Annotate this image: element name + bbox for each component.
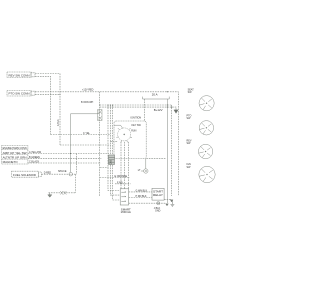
connector P4 face (199, 166, 215, 182)
switch rotor (114, 125, 132, 142)
svg-text:REV SW CONN: REV SW CONN (9, 74, 30, 77)
connector P3 face (198, 144, 212, 158)
svg-text:+12V RED: +12V RED (82, 89, 94, 92)
svg-text:B+12V: B+12V (154, 108, 163, 112)
switch terminal wire L (127, 142, 129, 189)
module wire 1 (129, 191, 152, 193)
module M1 (120, 189, 128, 205)
harness drop wire 2 (110, 105, 120, 195)
switch terminal wire B (124, 142, 126, 189)
connector box J2 (PTO switch) (7, 91, 35, 97)
wire rotor left lower (110, 140, 118, 142)
diode D1 (60, 191, 66, 195)
wire legend row2 (28, 153, 109, 155)
svg-text:D RED: D RED (44, 172, 52, 175)
legend table (2, 146, 28, 165)
accessory bus 2 (100, 107, 176, 110)
fuse F1 20A (98, 110, 102, 121)
wire to ground (49, 192, 76, 194)
svg-text:A YELLOW: A YELLOW (29, 151, 42, 154)
fuel solenoid box (12, 171, 42, 177)
svg-text:MAGNETO: MAGNETO (3, 161, 18, 164)
svg-text:AMP UP YEL SW: AMP UP YEL SW (3, 152, 28, 155)
svg-text:20 A: 20 A (152, 93, 158, 97)
svg-text:SPLICE: SPLICE (58, 170, 67, 173)
svg-text:C BLACK: C BLACK (29, 160, 40, 163)
svg-text:RELAY: RELAY (153, 194, 164, 197)
svg-text:GND: GND (155, 210, 161, 213)
fuse bracket 20A (143, 97, 170, 99)
svg-text:H RD BLK: H RD BLK (136, 195, 147, 198)
wire node B (60, 144, 111, 146)
connector P2 face (199, 121, 213, 135)
module wire 4 (129, 202, 166, 204)
svg-text:B ORN WH: B ORN WH (81, 101, 93, 104)
wire down from splice (75, 174, 77, 193)
main feed vertical (99, 92, 101, 196)
connector P1 face (199, 96, 214, 111)
ignition switch box U1 (114, 121, 146, 159)
indicator bulb (141, 159, 148, 174)
svg-text:G WH BLK: G WH BLK (136, 189, 148, 192)
wire node A to switch (51, 134, 111, 136)
switch terminal wire S (120, 142, 122, 189)
svg-text:KEY SW: KEY SW (132, 124, 142, 127)
wire J2 pin2 (35, 94, 60, 96)
svg-text:IGNITION: IGNITION (131, 116, 142, 119)
wire inner (115, 183, 131, 185)
inline connector on wire 4 (157, 202, 160, 205)
svg-text:E ORANGE: E ORANGE (115, 175, 128, 178)
svg-text:FUEL SOLENOID: FUEL SOLENOID (13, 174, 36, 177)
svg-text:F RD: F RD (117, 181, 123, 184)
wire from J1 pin2 (35, 76, 51, 134)
terminal arrow (174, 110, 178, 113)
connector block CB (109, 155, 115, 165)
vertical wire x76 (76, 154, 78, 175)
terminal arrow wire 3 (170, 200, 173, 202)
wire fuel solenoid (42, 173, 76, 175)
wire from J1 pin1 (35, 74, 60, 146)
junction dots (60, 91, 173, 154)
arrow end wire 4 (166, 204, 169, 206)
relay box K1 (152, 188, 164, 200)
solid wire right vertical (166, 99, 168, 203)
svg-text:MODULE: MODULE (121, 211, 131, 214)
svg-text:START: START (153, 190, 164, 193)
wire legend row4 (28, 162, 101, 164)
svg-text:RUN: RUN (131, 130, 136, 133)
solid harness wire (71, 114, 100, 173)
accessory bus (100, 104, 172, 106)
module wire 3 (164, 198, 171, 200)
svg-text:ALTNTR UP GRN: ALTNTR UP GRN (3, 157, 27, 160)
svg-text:A BLK: A BLK (57, 119, 60, 126)
wire legend row3 (28, 157, 101, 159)
module wire 2 (129, 197, 152, 199)
ground G1 (48, 193, 52, 197)
junction splice (69, 172, 73, 176)
wire from box corner right (146, 158, 165, 160)
harness drop wire 3 (113, 105, 121, 200)
connector box J1 (reverse switch) (7, 72, 35, 78)
wire seat circuit (100, 177, 130, 179)
harness drop wire 1 (108, 105, 120, 191)
wire fuse drop (144, 99, 146, 121)
svg-text:B GREEN: B GREEN (29, 156, 40, 159)
wire J2 B+ bus (35, 92, 178, 196)
svg-text:ENGINE HARN CONN: ENGINE HARN CONN (3, 147, 27, 150)
wire block to border (100, 167, 109, 169)
ground G2 (171, 200, 175, 206)
svg-text:C YEL: C YEL (83, 132, 91, 135)
svg-text:PTO SW CONN: PTO SW CONN (9, 93, 30, 96)
dashed vertical inner border (171, 105, 173, 196)
